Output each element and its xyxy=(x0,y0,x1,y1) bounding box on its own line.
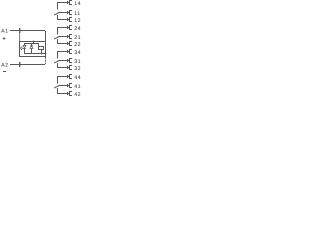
svg-text:21: 21 xyxy=(74,35,81,41)
junction dot on top rail xyxy=(33,43,35,45)
terminal bracket 14 xyxy=(69,0,70,5)
terminal tick 12 xyxy=(67,18,68,21)
diode D2 freewheel xyxy=(30,44,33,53)
relay coil K1 xyxy=(38,44,44,53)
svg-text:32: 32 xyxy=(74,66,81,72)
terminal bracket 31 xyxy=(69,58,70,63)
terminal tick 11 xyxy=(67,11,68,14)
contact group 4: wire terminal 42 xyxy=(57,93,69,94)
contact group 1: wire terminal 12 xyxy=(57,19,69,20)
terminal tick 21 xyxy=(67,35,68,38)
terminal clamp tick A2 xyxy=(19,62,20,67)
contact blade 41 xyxy=(54,86,59,89)
LED emission arrows xyxy=(20,46,23,50)
svg-text:14: 14 xyxy=(74,1,81,7)
LED D1 xyxy=(23,44,26,53)
svg-text:A1: A1 xyxy=(1,29,9,35)
contact 14 NO stub xyxy=(57,2,58,10)
terminal bracket 32 xyxy=(69,65,70,70)
svg-text:24: 24 xyxy=(74,26,81,32)
wire A1 right riser xyxy=(45,31,46,41)
svg-text:34: 34 xyxy=(74,50,81,56)
junction dot on box top edge xyxy=(33,41,35,43)
wire A1 left riser xyxy=(18,31,21,41)
terminal clamp tick A1 xyxy=(19,28,20,33)
contact 44 NO stub xyxy=(57,76,58,84)
contact 22 NC stub xyxy=(57,39,58,44)
svg-text:22: 22 xyxy=(74,42,81,48)
terminal tick 44 xyxy=(67,75,68,78)
terminal tick 42 xyxy=(67,92,68,95)
terminal bracket 22 xyxy=(69,41,70,46)
terminal bracket 21 xyxy=(69,34,70,39)
terminal bracket 11 xyxy=(69,10,70,15)
contact group 2: wire terminal 21 xyxy=(59,36,70,37)
contact 12 NC stub xyxy=(57,15,58,20)
terminal tick 14 xyxy=(67,1,68,4)
contact blade 31 xyxy=(54,61,59,64)
contact blade 21 xyxy=(54,37,59,40)
contact group 3: wire terminal 34 xyxy=(57,51,69,52)
contact group 3: wire terminal 32 xyxy=(57,67,69,68)
wire A2 horizontal xyxy=(10,64,45,65)
svg-text:11: 11 xyxy=(74,11,81,17)
contact group 1: wire terminal 11 xyxy=(59,12,70,13)
polarity plus mark xyxy=(3,37,6,40)
terminal bracket 41 xyxy=(69,83,70,88)
terminal tick 32 xyxy=(67,66,68,69)
svg-text:31: 31 xyxy=(74,59,81,65)
svg-text:44: 44 xyxy=(74,75,81,81)
wire internal top rail xyxy=(24,43,39,44)
wire internal bottom rail xyxy=(24,53,46,54)
contact 32 NC stub xyxy=(57,63,58,68)
contact 42 NC stub xyxy=(57,88,58,94)
contact 24 NO stub xyxy=(57,27,58,35)
terminal tick 22 xyxy=(67,42,68,45)
terminal tick 41 xyxy=(67,84,68,87)
wire A2 riser dashed xyxy=(45,57,46,59)
module box outline xyxy=(19,41,46,42)
svg-text:A2: A2 xyxy=(1,62,9,68)
contact group 1: wire terminal 14 xyxy=(57,2,69,3)
contact group 4: wire terminal 44 xyxy=(57,76,69,77)
contact group 2: wire terminal 22 xyxy=(57,43,69,44)
terminal bracket 42 xyxy=(69,91,70,96)
terminal bracket 34 xyxy=(69,49,70,54)
terminal bracket 44 xyxy=(69,74,70,79)
contact blade 11 xyxy=(54,13,59,16)
wire A1 horizontal xyxy=(10,30,45,31)
junction dot bottom rail right end xyxy=(45,53,47,55)
terminal tick 34 xyxy=(67,50,68,53)
junction dot coil to bottom rail xyxy=(41,53,43,55)
svg-text:12: 12 xyxy=(74,18,81,24)
terminal bracket 24 xyxy=(69,25,70,30)
svg-text:42: 42 xyxy=(74,92,81,98)
contact group 4: wire terminal 41 xyxy=(59,85,70,86)
wire feed drop xyxy=(33,41,34,44)
terminal tick 24 xyxy=(67,26,68,29)
svg-text:41: 41 xyxy=(74,84,81,90)
contact 34 NO stub xyxy=(57,51,58,59)
polarity minus mark xyxy=(3,71,6,72)
terminal tick 31 xyxy=(67,59,68,62)
contact group 2: wire terminal 24 xyxy=(57,27,69,28)
terminal bracket 12 xyxy=(69,17,70,22)
contact group 3: wire terminal 31 xyxy=(59,60,70,61)
